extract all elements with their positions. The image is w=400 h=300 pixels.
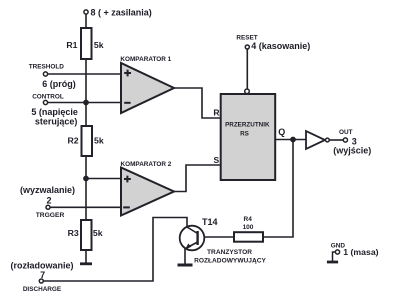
resistor R3 bbox=[81, 220, 92, 250]
wire transistor emitter to ground bar bbox=[184, 248, 186, 264]
terminal pin 8 bbox=[84, 10, 88, 14]
svg-text:7: 7 bbox=[40, 270, 45, 280]
svg-text:Q: Q bbox=[278, 127, 285, 137]
reset bubble on flip-flop top bbox=[245, 89, 250, 94]
transistor T14 bbox=[180, 226, 205, 251]
svg-text:2: 2 bbox=[46, 195, 51, 205]
ground symbol pin 1 bbox=[327, 252, 338, 262]
svg-text:5 (napięcie: 5 (napięcie bbox=[31, 107, 78, 117]
svg-text:CONTROL: CONTROL bbox=[32, 93, 64, 100]
svg-text:5k: 5k bbox=[94, 40, 104, 50]
svg-text:S: S bbox=[213, 155, 219, 165]
svg-text:PRZERZUTNIK: PRZERZUTNIK bbox=[225, 122, 270, 129]
terminal pin 5 CONTROL bbox=[43, 100, 47, 104]
wire R1 bottom to R2 top (divider) bbox=[85, 59, 87, 126]
wire comparator 1 output to flip-flop R input bbox=[174, 88, 220, 118]
wire pin 5 CONTROL to comparator 1 - input bbox=[48, 102, 122, 104]
svg-text:RS: RS bbox=[240, 131, 249, 138]
svg-text:KOMPARATOR 1: KOMPARATOR 1 bbox=[120, 56, 171, 63]
wire R3 bottom to ground bar bbox=[85, 250, 87, 263]
junction dot CONTROL / divider node bbox=[83, 100, 89, 106]
svg-text:100: 100 bbox=[243, 224, 254, 231]
wire pin 4 RESET to flip-flop bubble bbox=[246, 49, 248, 89]
svg-text:R1: R1 bbox=[66, 40, 77, 50]
wire Q junction down and left to R4 bbox=[263, 140, 293, 238]
terminal pin 6 THRESHOLD bbox=[43, 72, 47, 76]
wire pin 2 TRIGGER to comparator 2 - input bbox=[50, 206, 122, 208]
wire flip-flop Q output to inverter bbox=[275, 139, 306, 141]
svg-text:DISCHARGE: DISCHARGE bbox=[23, 286, 62, 293]
svg-text:(wyzwalanie): (wyzwalanie) bbox=[20, 185, 75, 195]
wire divider junction to comparator 2 + input bbox=[86, 178, 122, 180]
svg-text:KOMPARATOR 2: KOMPARATOR 2 bbox=[121, 161, 172, 168]
svg-text:OUT: OUT bbox=[339, 129, 353, 136]
svg-text:TRANZYSTOR: TRANZYSTOR bbox=[207, 249, 252, 256]
terminal pin 4 RESET bbox=[245, 45, 249, 49]
wire pin 7 DISCHARGE to transistor collector bbox=[43, 218, 187, 282]
wire comparator 2 output to flip-flop S input bbox=[174, 165, 220, 192]
wire inverter bubble to pin 3 bbox=[329, 139, 343, 141]
resistor R4 bbox=[234, 232, 263, 242]
svg-text:4 (kasowanie): 4 (kasowanie) bbox=[251, 41, 310, 51]
svg-text:R4: R4 bbox=[244, 216, 253, 223]
svg-text:ROZŁADOWYWUJĄCY: ROZŁADOWYWUJĄCY bbox=[194, 257, 266, 264]
wire R4 left to transistor base bbox=[199, 236, 234, 238]
junction dot Q output / base branch bbox=[290, 137, 296, 143]
svg-text:TRESHOLD: TRESHOLD bbox=[29, 63, 65, 70]
flip-flop U1 PRZERZUTNIK RS bbox=[221, 94, 276, 180]
svg-text:R: R bbox=[213, 108, 219, 118]
op-amp comparator 2 bbox=[121, 168, 174, 216]
terminal pin 3 OUT bbox=[343, 138, 347, 142]
ground bar at transistor emitter bbox=[178, 264, 193, 267]
svg-text:5k: 5k bbox=[94, 136, 104, 146]
wire R2 bottom to R3 top (divider) bbox=[85, 156, 87, 220]
svg-text:R3: R3 bbox=[68, 228, 79, 238]
wire pin 8 to R1 bbox=[85, 14, 87, 28]
svg-text:6 (próg): 6 (próg) bbox=[42, 79, 76, 89]
resistor R1 bbox=[81, 28, 92, 59]
wire pin 6 THRESHOLD to comparator 1 + input bbox=[48, 73, 122, 75]
svg-text:8 ( + zasilania): 8 ( + zasilania) bbox=[91, 7, 152, 17]
svg-text:(wyjście): (wyjście) bbox=[333, 145, 371, 155]
svg-text:(rozładowanie): (rozładowanie) bbox=[10, 260, 73, 270]
terminal pin 1 GND bbox=[335, 250, 339, 254]
svg-text:1 (masa): 1 (masa) bbox=[343, 247, 378, 257]
inverter output buffer bbox=[306, 131, 329, 149]
svg-text:sterujące): sterujące) bbox=[35, 117, 78, 127]
svg-text:R2: R2 bbox=[67, 136, 78, 146]
ground bar below R3 bbox=[80, 262, 92, 265]
svg-text:TRGGER: TRGGER bbox=[36, 212, 65, 219]
junction dot divider / comparator 2 + node bbox=[83, 176, 89, 182]
op-amp comparator 1 bbox=[121, 63, 174, 113]
resistor R2 bbox=[82, 126, 93, 156]
terminal pin 2 TRIGGER bbox=[46, 205, 50, 209]
svg-text:T14: T14 bbox=[202, 217, 218, 227]
terminal pin 7 DISCHARGE bbox=[39, 279, 43, 283]
svg-text:5k: 5k bbox=[93, 228, 103, 238]
